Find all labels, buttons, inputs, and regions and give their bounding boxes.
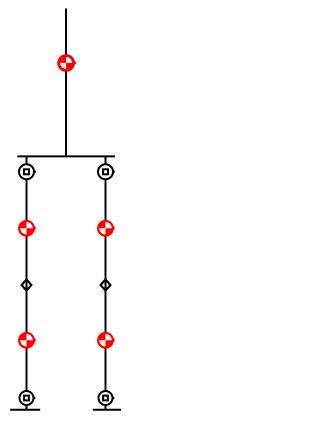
earthing switch QE1 (left) bbox=[20, 391, 36, 405]
wire left feeder bbox=[26, 156, 28, 409]
switch Q4 (right, closed) bbox=[97, 332, 115, 349]
switch Q1 (left, closed) bbox=[18, 220, 36, 237]
ground bar left bbox=[10, 409, 40, 411]
breaker CB2 (right) bbox=[98, 164, 115, 179]
busbar bbox=[17, 155, 115, 157]
earthing switch QE2 (right) bbox=[99, 391, 115, 405]
breaker CB1 (left) bbox=[19, 164, 36, 179]
switch Q0 (incoming, closed) bbox=[57, 54, 76, 72]
wire incoming feeder bbox=[65, 9, 67, 157]
switch Q2 (right, closed) bbox=[97, 220, 115, 237]
wire right feeder bbox=[105, 156, 107, 409]
switch Q3 (left, closed) bbox=[18, 332, 36, 349]
ground bar right bbox=[93, 409, 121, 411]
fuse F1 (left feeder) bbox=[22, 279, 32, 290]
fuse F2 (right feeder) bbox=[101, 279, 111, 290]
